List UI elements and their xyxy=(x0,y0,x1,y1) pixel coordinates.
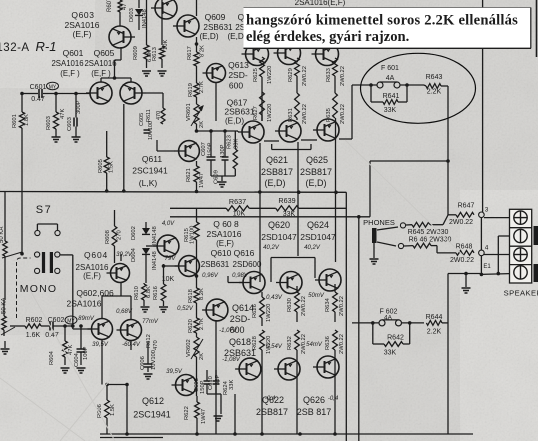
phones jack xyxy=(372,228,377,243)
wire output column join xyxy=(271,257,315,259)
terminal 4 xyxy=(514,266,527,279)
svg-text:R-1: R-1 xyxy=(36,39,57,54)
svg-text:2.2K: 2.2K xyxy=(427,329,442,336)
wire emitter row xyxy=(261,115,263,121)
svg-text:Q610: Q610 xyxy=(211,248,232,258)
wire top rail xyxy=(146,0,148,45)
svg-text:C603: C603 xyxy=(67,117,73,131)
wire Q608 row xyxy=(146,245,157,247)
ground R604 xyxy=(61,368,70,373)
svg-text:2.7K: 2.7K xyxy=(199,318,205,330)
wire columns output vertical xyxy=(261,358,263,434)
svg-text:Q603: Q603 xyxy=(71,10,94,20)
svg-text:1.8K: 1.8K xyxy=(24,114,30,126)
svg-text:(L,K): (L,K) xyxy=(139,178,158,188)
svg-text:D602: D602 xyxy=(131,226,137,240)
svg-text:R634: R634 xyxy=(325,297,331,312)
svg-text:C604: C604 xyxy=(74,352,80,367)
svg-text:0.47: 0.47 xyxy=(31,96,45,103)
svg-text:39,5V: 39,5V xyxy=(166,369,183,375)
svg-text:2W0.22: 2W0.22 xyxy=(340,104,346,124)
svg-text:2W0.22: 2W0.22 xyxy=(302,104,308,124)
transistor Q622 out xyxy=(278,358,300,380)
svg-text:47K: 47K xyxy=(60,109,66,119)
svg-text:40,2V: 40,2V xyxy=(263,245,280,251)
svg-text:(E,F ): (E,F ) xyxy=(91,69,111,78)
ground phones jack xyxy=(370,259,379,264)
svg-text:1W47: 1W47 xyxy=(201,409,207,424)
svg-text:R621: R621 xyxy=(186,168,192,182)
ground C603 xyxy=(72,137,81,142)
svg-text:(E,F): (E,F) xyxy=(216,239,234,248)
wire pot to R602 xyxy=(3,330,5,336)
svg-text:R604: R604 xyxy=(49,350,55,365)
svg-text:Q613: Q613 xyxy=(228,60,249,70)
svg-text:2SD1047: 2SD1047 xyxy=(300,232,336,242)
terminal 1 xyxy=(514,211,527,224)
resistor R642 33K xyxy=(372,323,374,344)
svg-text:89mV: 89mV xyxy=(78,316,95,322)
svg-text:(E,D): (E,D) xyxy=(265,178,286,188)
svg-text:C606: C606 xyxy=(140,356,146,370)
svg-text:2W0.22: 2W0.22 xyxy=(450,257,474,264)
transistor Q613 xyxy=(207,64,226,83)
svg-text:Q622: Q622 xyxy=(262,395,284,405)
svg-text:150P: 150P xyxy=(200,380,206,394)
ground left xyxy=(4,341,6,348)
svg-text:R611: R611 xyxy=(146,109,152,122)
svg-text:R632: R632 xyxy=(287,336,293,350)
wire bottom bus xyxy=(100,433,473,435)
svg-text:hangszóró kimenettel soros 2.2: hangszóró kimenettel soros 2.2K ellenáll… xyxy=(246,13,518,29)
svg-text:D603: D603 xyxy=(129,8,135,22)
svg-text:1.6K: 1.6K xyxy=(26,332,41,339)
transistor Q616b xyxy=(243,272,265,294)
svg-text:6.8K: 6.8K xyxy=(146,286,152,298)
transistor Q601 xyxy=(90,82,112,104)
svg-text:R629: R629 xyxy=(288,68,294,82)
svg-text:S7: S7 xyxy=(36,204,52,216)
wire Q604 emitter xyxy=(120,254,122,261)
wire Q601 Q605 tops xyxy=(100,78,102,82)
svg-text:2K: 2K xyxy=(199,121,205,128)
svg-text:R617: R617 xyxy=(187,46,193,60)
svg-text:2W0.22: 2W0.22 xyxy=(339,296,345,316)
svg-text:Q604: Q604 xyxy=(84,250,108,260)
svg-text:VR601: VR601 xyxy=(186,103,192,121)
svg-text:39,5V: 39,5V xyxy=(92,342,109,348)
transistor Q609 xyxy=(177,15,199,37)
wire to phones column xyxy=(370,160,448,162)
svg-text:1W220: 1W220 xyxy=(267,66,273,84)
wire input xyxy=(22,93,38,95)
svg-text:Q605: Q605 xyxy=(94,48,115,58)
svg-text:3: 3 xyxy=(485,207,489,214)
transistor Q618 device xyxy=(239,358,261,380)
svg-text:R647: R647 xyxy=(458,203,475,210)
terminal 2 xyxy=(514,229,527,242)
svg-text:0,52V: 0,52V xyxy=(177,306,194,312)
svg-text:Q624: Q624 xyxy=(307,220,329,230)
wire output columns xyxy=(261,77,263,92)
svg-text:270: 270 xyxy=(117,230,123,240)
svg-text:(E,D): (E,D) xyxy=(225,117,244,126)
wire Q603 emitter xyxy=(120,47,122,60)
transistor Q621 xyxy=(279,120,301,142)
node 4 xyxy=(479,250,485,256)
svg-text:2W0.22: 2W0.22 xyxy=(340,66,346,86)
transistor Q602 xyxy=(92,319,113,340)
svg-text:2SD1047: 2SD1047 xyxy=(261,232,297,242)
background xyxy=(0,0,1,1)
transistor Q617 big xyxy=(242,121,264,143)
transistor Q614 xyxy=(206,299,228,321)
svg-text:R605: R605 xyxy=(98,159,104,173)
wire terminal 3 xyxy=(484,254,510,256)
wire rail A turn down xyxy=(345,192,347,441)
svg-text:1.5K: 1.5K xyxy=(110,404,116,416)
svg-text:8.2K: 8.2K xyxy=(199,288,205,300)
speaker terminal block frame xyxy=(510,209,532,283)
svg-text:R612: R612 xyxy=(146,334,152,348)
svg-text:4,0V: 4,0V xyxy=(162,221,175,227)
wire ellipse area xyxy=(352,84,377,86)
svg-text:2SA1016: 2SA1016 xyxy=(207,229,242,239)
svg-text:0,96V: 0,96V xyxy=(202,273,219,279)
svg-text:elég érdekes, gyári rajzon.: elég érdekes, gyári rajzon. xyxy=(246,29,409,45)
transistor Q607 top xyxy=(155,0,177,19)
svg-text:1W220: 1W220 xyxy=(266,304,272,322)
svg-text:Q620: Q620 xyxy=(268,220,290,230)
wire rail B turn down xyxy=(358,217,360,441)
svg-text:R630: R630 xyxy=(287,298,293,312)
svg-text:R637: R637 xyxy=(229,197,246,206)
transistor Q610 driver xyxy=(179,256,200,277)
svg-text:Q612: Q612 xyxy=(142,396,164,406)
wire mid rail B xyxy=(170,216,370,218)
svg-text:2W0.22: 2W0.22 xyxy=(449,219,473,226)
svg-text:2.7K: 2.7K xyxy=(199,81,205,93)
svg-text:33K: 33K xyxy=(384,107,397,114)
wire terminal 2 loop xyxy=(498,235,509,237)
svg-text:R644: R644 xyxy=(426,314,443,321)
transistor Q626 driver xyxy=(319,269,341,291)
svg-text:R643: R643 xyxy=(426,74,443,81)
ground R613 xyxy=(158,71,167,76)
wire Q611 base xyxy=(157,150,175,152)
svg-text:600: 600 xyxy=(229,325,244,335)
svg-text:-1,08V: -1,08V xyxy=(222,357,241,363)
wire node3 column xyxy=(482,0,484,212)
svg-text:4A: 4A xyxy=(386,75,395,82)
svg-text:MY: MY xyxy=(49,85,57,91)
wire left column S7 xyxy=(4,268,6,300)
svg-text:-0,4: -0,4 xyxy=(328,396,339,402)
svg-text:2SA1016: 2SA1016 xyxy=(51,59,83,68)
svg-text:R623: R623 xyxy=(227,135,233,149)
svg-text:R648: R648 xyxy=(456,244,473,251)
svg-text:77mV: 77mV xyxy=(142,319,159,325)
svg-text:(E,D): (E,D) xyxy=(199,32,218,41)
resistor R645 2W330 xyxy=(412,222,430,227)
svg-text:132-A: 132-A xyxy=(0,42,30,54)
wire jack contacts xyxy=(377,227,398,230)
svg-text:0,43V: 0,43V xyxy=(266,295,283,301)
ground C604 xyxy=(77,368,86,373)
svg-text:IN4148: IN4148 xyxy=(152,251,158,270)
svg-text:(E,D): (E,D) xyxy=(306,178,327,188)
node 3 xyxy=(479,212,485,218)
transistor Q622 driver xyxy=(280,272,302,294)
transistor Q605 xyxy=(120,82,142,104)
svg-text:33K: 33K xyxy=(384,350,397,357)
svg-text:2SB817: 2SB817 xyxy=(300,167,332,177)
svg-text:Q611: Q611 xyxy=(142,154,162,164)
svg-text:33K: 33K xyxy=(229,380,235,390)
svg-text:Q 60 8: Q 60 8 xyxy=(213,219,239,229)
svg-text:R601: R601 xyxy=(12,114,18,128)
wire transformer out xyxy=(60,254,73,256)
transistor Q603 xyxy=(109,26,131,48)
svg-text:R620: R620 xyxy=(188,319,194,333)
wire terminal 4 xyxy=(481,273,509,276)
transistor Q623 top xyxy=(278,42,301,65)
svg-text:R608: R608 xyxy=(105,230,111,244)
svg-text:50mV: 50mV xyxy=(308,293,325,299)
wire mid rail A xyxy=(0,191,346,194)
wire column Q613 xyxy=(215,82,217,121)
svg-text:E1: E1 xyxy=(483,264,491,270)
svg-text:2SB631: 2SB631 xyxy=(201,260,230,269)
wire emitter notch xyxy=(271,144,273,150)
svg-text:(E,F): (E,F) xyxy=(73,29,92,39)
wire Q605 emitter down xyxy=(123,104,125,191)
wire terminal 1 xyxy=(484,217,510,219)
svg-text:Q616: Q616 xyxy=(234,248,255,258)
svg-text:79V: 79V xyxy=(165,256,177,262)
svg-text:(E,F ): (E,F ) xyxy=(60,69,80,78)
svg-text:R633: R633 xyxy=(326,68,332,82)
svg-text:Q625: Q625 xyxy=(306,155,328,165)
terminal block shading xyxy=(534,226,538,245)
svg-text:8 2K: 8 2K xyxy=(200,45,206,57)
ground R616 xyxy=(159,307,168,312)
svg-text:2SA1016: 2SA1016 xyxy=(84,59,116,68)
wire left edge xyxy=(4,192,6,214)
transformer T1 xyxy=(35,252,40,257)
svg-text:R639: R639 xyxy=(278,196,295,205)
svg-text:R603: R603 xyxy=(46,116,52,130)
svg-text:2W0.22: 2W0.22 xyxy=(339,334,345,354)
ground cap cluster xyxy=(218,182,227,187)
svg-text:2SB631: 2SB631 xyxy=(224,107,255,117)
wire mid rail center xyxy=(170,207,226,209)
transistor Q606 xyxy=(121,320,142,341)
transistor Q604 xyxy=(111,264,130,283)
svg-text:SPEAKER: SPEAKER xyxy=(504,289,538,298)
svg-text:D604: D604 xyxy=(131,247,137,262)
svg-text:C605: C605 xyxy=(139,113,145,126)
highlight ellipse xyxy=(361,53,476,123)
svg-text:R641: R641 xyxy=(383,93,400,100)
transistor Q626 out xyxy=(317,356,339,378)
svg-text:1W220: 1W220 xyxy=(267,104,273,122)
svg-text:VR602: VR602 xyxy=(186,339,192,357)
svg-text:2.2K: 2.2K xyxy=(427,89,442,96)
svg-text:Q621: Q621 xyxy=(266,155,288,165)
svg-text:2SD-: 2SD- xyxy=(230,314,251,324)
svg-text:2SA1016: 2SA1016 xyxy=(67,299,102,309)
svg-text:R622: R622 xyxy=(184,406,190,420)
wire right edge top xyxy=(536,0,538,57)
scratch lines xyxy=(0,140,470,441)
ground C610 xyxy=(214,416,223,421)
svg-text:1W47: 1W47 xyxy=(199,173,205,188)
svg-text:2SB817: 2SB817 xyxy=(256,407,288,417)
svg-text:300P: 300P xyxy=(76,100,82,114)
svg-text:R618: R618 xyxy=(188,289,194,303)
svg-text:Q626: Q626 xyxy=(303,395,325,405)
svg-text:R625: R625 xyxy=(253,68,259,82)
wire F602 row xyxy=(352,322,379,324)
wire Q604 collector xyxy=(114,210,116,226)
svg-text:R636: R636 xyxy=(325,336,331,350)
wire R643 down xyxy=(447,86,449,215)
ground R609 xyxy=(142,71,151,76)
svg-text:R628: R628 xyxy=(252,336,258,350)
transistor Q616 bottom driver xyxy=(176,375,197,396)
svg-text:2K: 2K xyxy=(199,353,205,360)
svg-text:R642: R642 xyxy=(387,335,404,342)
svg-text:F 601: F 601 xyxy=(381,65,399,72)
wire cap cluster xyxy=(211,175,235,177)
svg-text:0,54V: 0,54V xyxy=(266,344,283,350)
svg-text:10K: 10K xyxy=(163,40,169,50)
transistor Q608 xyxy=(157,235,179,257)
svg-text:2SB817: 2SB817 xyxy=(261,167,293,177)
svg-text:R613: R613 xyxy=(152,47,158,61)
svg-text:0,68V: 0,68V xyxy=(116,309,133,315)
svg-text:MONO: MONO xyxy=(20,283,57,295)
svg-text:1.5K: 1.5K xyxy=(109,161,115,173)
wire Q609 collector to R617 xyxy=(196,37,198,52)
svg-text:2SA1016(E,F): 2SA1016(E,F) xyxy=(295,0,346,7)
svg-text:Q614: Q614 xyxy=(232,303,254,313)
transistor top third xyxy=(316,43,339,66)
svg-text:600: 600 xyxy=(229,81,243,91)
wire R606 bus xyxy=(105,383,109,387)
svg-text:Q618: Q618 xyxy=(229,337,251,347)
svg-text:2SD600: 2SD600 xyxy=(233,260,262,269)
svg-text:470: 470 xyxy=(153,340,159,350)
transistor Q625 xyxy=(317,119,339,141)
wire Q602 Q606 bases xyxy=(101,296,103,318)
svg-text:Q601: Q601 xyxy=(63,48,84,58)
svg-text:2SC1941: 2SC1941 xyxy=(133,410,171,420)
svg-text:R610: R610 xyxy=(134,286,140,300)
svg-text:33K: 33K xyxy=(234,139,240,149)
svg-text:C610: C610 xyxy=(208,376,214,390)
svg-text:R607: R607 xyxy=(107,0,113,12)
svg-text:1W100: 1W100 xyxy=(190,226,196,244)
svg-text:R626: R626 xyxy=(252,304,258,318)
svg-text:R616: R616 xyxy=(153,286,159,300)
wire Q603 collector R607 xyxy=(119,12,121,26)
svg-text:(E,F): (E,F) xyxy=(83,272,101,281)
svg-text:Q609: Q609 xyxy=(205,12,226,22)
switch S7 xyxy=(37,223,57,225)
transistor Q611 driver xyxy=(179,141,200,162)
ground C606 xyxy=(144,374,153,379)
wire VR601 to node xyxy=(196,124,198,131)
svg-text:C601: C601 xyxy=(30,84,47,91)
text overlay box xyxy=(244,8,531,49)
svg-text:C607: C607 xyxy=(201,142,207,156)
svg-text:54mV: 54mV xyxy=(306,342,323,348)
svg-text:2SB 817: 2SB 817 xyxy=(297,407,332,417)
ground R610 xyxy=(141,307,150,312)
svg-text:R619: R619 xyxy=(188,83,194,97)
svg-text:MY: MY xyxy=(67,319,75,325)
svg-text:PHONES: PHONES xyxy=(363,218,395,227)
dashed box mono xyxy=(17,258,31,318)
wire R644 up xyxy=(447,274,449,435)
svg-text:2W0.22: 2W0.22 xyxy=(301,296,307,316)
terminal 3 xyxy=(514,248,527,261)
svg-text:40,2V: 40,2V xyxy=(304,245,321,251)
ground R603 xyxy=(55,129,57,137)
svg-text:47: 47 xyxy=(122,3,128,10)
svg-text:2W0.22: 2W0.22 xyxy=(302,66,308,86)
resistor R646 2W330 xyxy=(413,243,431,248)
transistor Q619 top xyxy=(246,43,269,66)
svg-text:4: 4 xyxy=(485,245,489,252)
svg-text:2SB631: 2SB631 xyxy=(203,23,233,32)
svg-text:2SD-: 2SD- xyxy=(228,70,248,80)
wire center verticals xyxy=(196,209,198,222)
svg-text:R627: R627 xyxy=(253,106,259,120)
resistor R641 33K xyxy=(370,85,372,102)
ground E1 area xyxy=(465,274,467,288)
svg-text:2SC1941: 2SC1941 xyxy=(132,166,168,176)
svg-text:R609: R609 xyxy=(133,46,139,60)
